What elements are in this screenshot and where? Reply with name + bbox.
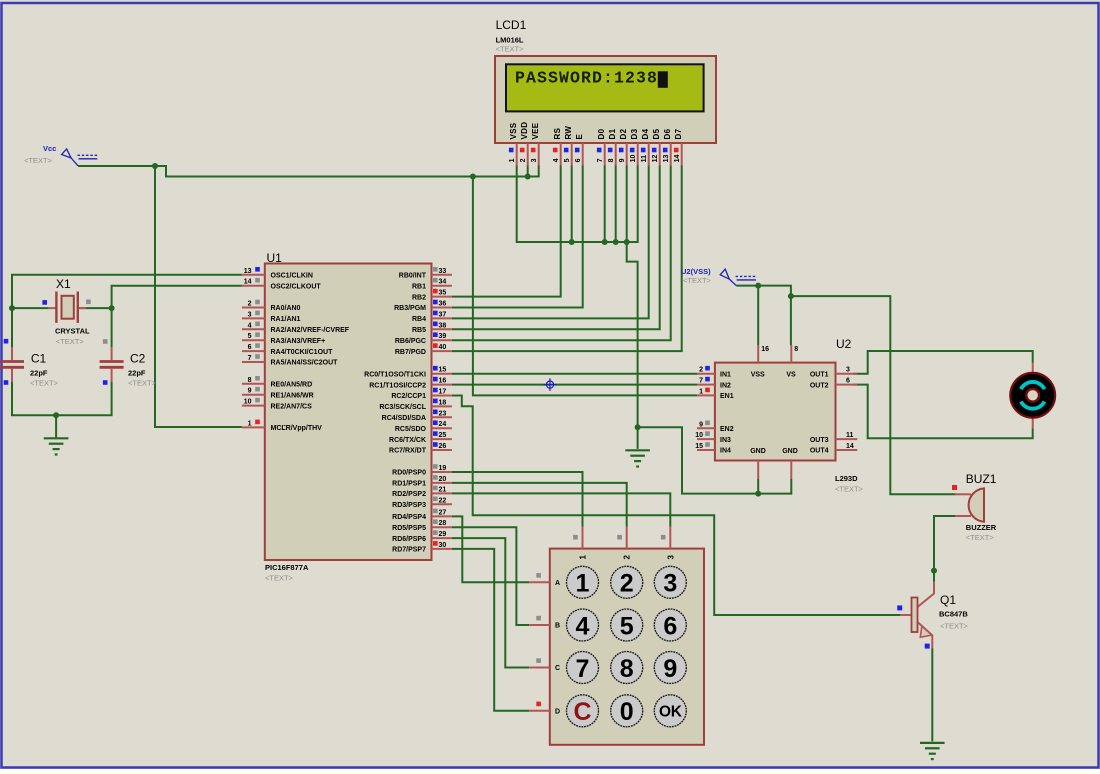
svg-text:D2: D2 (619, 128, 628, 139)
svg-text:RC2/CCP1: RC2/CCP1 (391, 393, 426, 400)
svg-text:23: 23 (439, 410, 447, 417)
svg-text:1: 1 (579, 555, 588, 560)
svg-text:4: 4 (576, 612, 590, 640)
svg-text:PASSWORD:1238: PASSWORD:1238 (515, 69, 658, 88)
svg-text:EN1: EN1 (720, 393, 734, 400)
svg-text:RA3/AN3/VREF+: RA3/AN3/VREF+ (271, 338, 326, 345)
svg-text:9: 9 (699, 421, 703, 428)
svg-text:33: 33 (439, 268, 447, 275)
svg-text:RA1/AN1: RA1/AN1 (271, 316, 301, 323)
svg-text:5: 5 (248, 333, 252, 340)
svg-text:4: 4 (248, 322, 252, 329)
svg-text:C: C (555, 665, 560, 672)
svg-text:X1: X1 (56, 277, 71, 291)
svg-text:17: 17 (439, 389, 447, 396)
svg-text:6: 6 (575, 158, 582, 162)
svg-text:3: 3 (663, 570, 677, 598)
svg-text:RA4/T0CKI/C1OUT: RA4/T0CKI/C1OUT (271, 349, 334, 356)
svg-text:RB6/PGC: RB6/PGC (395, 338, 426, 345)
svg-text:8: 8 (248, 377, 252, 384)
svg-text:8: 8 (608, 158, 615, 162)
svg-text:IN4: IN4 (720, 448, 731, 455)
svg-text:1: 1 (509, 158, 516, 162)
svg-text:22pF: 22pF (128, 369, 146, 378)
svg-text:Vcc: Vcc (43, 144, 56, 153)
svg-text:5: 5 (620, 612, 634, 640)
svg-text:RD6/PSP6: RD6/PSP6 (392, 536, 426, 543)
svg-text:20: 20 (439, 476, 447, 483)
svg-text:D4: D4 (641, 128, 650, 139)
svg-text:RD5/PSP5: RD5/PSP5 (392, 525, 426, 532)
svg-text:VS: VS (786, 371, 796, 378)
svg-text:39: 39 (439, 333, 447, 340)
svg-text:RD1/PSP1: RD1/PSP1 (392, 481, 426, 488)
svg-text:RC6/TX/CK: RC6/TX/CK (389, 437, 426, 444)
svg-text:U2(VSS): U2(VSS) (681, 267, 711, 276)
svg-text:A: A (555, 580, 560, 587)
svg-text:1: 1 (699, 388, 703, 395)
svg-text:1: 1 (248, 420, 252, 427)
svg-text:RC5/SDO: RC5/SDO (395, 426, 427, 433)
svg-text:3: 3 (666, 555, 675, 560)
svg-text:40: 40 (439, 344, 447, 351)
svg-text:12: 12 (652, 155, 659, 163)
svg-text:D6: D6 (663, 128, 672, 139)
svg-text:RD2/PSP2: RD2/PSP2 (392, 491, 426, 498)
svg-text:RD3/PSP3: RD3/PSP3 (392, 502, 426, 509)
svg-text:<TEXT>: <TEXT> (940, 622, 969, 631)
svg-text:OSC2/CLKOUT: OSC2/CLKOUT (271, 283, 322, 290)
svg-text:BC847B: BC847B (939, 610, 968, 619)
svg-text:3: 3 (846, 367, 850, 374)
svg-text:<TEXT>: <TEXT> (128, 379, 157, 388)
svg-text:MCLR/Vpp/THV: MCLR/Vpp/THV (271, 425, 323, 432)
svg-text:OK: OK (659, 703, 683, 720)
svg-text:36: 36 (439, 301, 447, 308)
svg-text:D7: D7 (674, 128, 683, 139)
svg-text:U2: U2 (836, 337, 852, 351)
svg-text:0: 0 (620, 698, 634, 726)
svg-text:RB0/INT: RB0/INT (399, 273, 427, 280)
svg-text:38: 38 (439, 322, 447, 329)
svg-text:14: 14 (244, 279, 252, 286)
svg-text:14: 14 (846, 443, 854, 450)
svg-text:VSS: VSS (751, 371, 765, 378)
svg-text:7: 7 (597, 158, 604, 162)
svg-text:3: 3 (531, 158, 538, 162)
svg-text:27: 27 (439, 509, 447, 516)
svg-text:28: 28 (439, 520, 447, 527)
svg-text:IN3: IN3 (720, 437, 731, 444)
svg-text:E: E (575, 134, 584, 140)
svg-text:10: 10 (244, 399, 252, 406)
svg-text:29: 29 (439, 531, 447, 538)
svg-text:11: 11 (846, 432, 854, 439)
svg-text:RC4/SDI/SDA: RC4/SDI/SDA (382, 415, 426, 422)
svg-text:<TEXT>: <TEXT> (265, 574, 294, 583)
svg-text:5: 5 (564, 158, 571, 162)
svg-text:CRYSTAL: CRYSTAL (55, 327, 90, 336)
svg-text:2: 2 (248, 301, 252, 308)
svg-text:C2: C2 (130, 352, 146, 366)
svg-text:2: 2 (520, 158, 527, 162)
svg-text:22pF: 22pF (30, 369, 48, 378)
svg-text:OUT1: OUT1 (810, 371, 829, 378)
svg-text:10: 10 (695, 432, 703, 439)
svg-text:OUT2: OUT2 (810, 382, 829, 389)
svg-text:<TEXT>: <TEXT> (496, 45, 525, 54)
svg-text:RC1/T1OSI/CCP2: RC1/T1OSI/CCP2 (369, 382, 426, 389)
svg-text:OSC1/CLKIN: OSC1/CLKIN (271, 273, 313, 280)
svg-text:LM016L: LM016L (496, 36, 524, 45)
svg-text:C1: C1 (31, 352, 47, 366)
svg-text:EN2: EN2 (720, 426, 734, 433)
svg-text:19: 19 (439, 465, 447, 472)
svg-text:BUZZER: BUZZER (966, 523, 997, 532)
svg-text:1: 1 (576, 570, 590, 598)
svg-text:8: 8 (794, 346, 798, 353)
svg-text:RA2/AN2/VREF-/CVREF: RA2/AN2/VREF-/CVREF (271, 327, 350, 334)
svg-text:U1: U1 (267, 251, 283, 265)
svg-text:15: 15 (439, 367, 447, 374)
svg-text:13: 13 (663, 155, 670, 163)
svg-text:OUT4: OUT4 (810, 448, 829, 455)
svg-text:<TEXT>: <TEXT> (683, 276, 712, 285)
svg-text:BUZ1: BUZ1 (966, 472, 997, 486)
svg-text:25: 25 (439, 432, 447, 439)
svg-text:RS: RS (553, 127, 562, 139)
svg-text:GND: GND (782, 448, 798, 455)
svg-text:RA0/AN0: RA0/AN0 (271, 305, 301, 312)
svg-text:C: C (573, 698, 591, 726)
svg-text:15: 15 (695, 443, 703, 450)
svg-text:RB4: RB4 (412, 316, 426, 323)
svg-text:6: 6 (663, 612, 677, 640)
svg-text:RB3/PGM: RB3/PGM (394, 305, 426, 312)
svg-text:B: B (555, 623, 560, 630)
svg-text:RE2/AN7/CS: RE2/AN7/CS (271, 403, 313, 410)
svg-text:Q1: Q1 (940, 593, 956, 607)
svg-text:30: 30 (439, 542, 447, 549)
svg-text:26: 26 (439, 443, 447, 450)
svg-text:<TEXT>: <TEXT> (966, 533, 995, 542)
svg-text:RW: RW (564, 126, 573, 140)
svg-text:RC3/SCK/SCL: RC3/SCK/SCL (379, 404, 426, 411)
svg-text:GND: GND (750, 448, 766, 455)
svg-text:9: 9 (663, 655, 677, 683)
svg-text:RB2: RB2 (412, 294, 426, 301)
svg-text:13: 13 (244, 268, 252, 275)
svg-text:34: 34 (439, 279, 447, 286)
svg-text:9: 9 (248, 388, 252, 395)
svg-text:2: 2 (623, 555, 632, 560)
svg-text:RC0/T1OSO/T1CKI: RC0/T1OSO/T1CKI (364, 371, 426, 378)
svg-text:RB5: RB5 (412, 327, 426, 334)
svg-text:2: 2 (620, 570, 634, 598)
svg-text:11: 11 (641, 155, 648, 163)
svg-text:RC7/RX/DT: RC7/RX/DT (389, 448, 427, 455)
svg-text:21: 21 (439, 486, 447, 493)
svg-text:RB7/PGD: RB7/PGD (395, 349, 426, 356)
svg-text:RE1/AN6/WR: RE1/AN6/WR (271, 392, 314, 399)
svg-text:RB1: RB1 (412, 283, 426, 290)
svg-text:14: 14 (674, 155, 681, 163)
svg-text:6: 6 (248, 344, 252, 351)
svg-text:<TEXT>: <TEXT> (56, 337, 85, 346)
svg-text:RD0/PSP0: RD0/PSP0 (392, 470, 426, 477)
svg-text:IN1: IN1 (720, 371, 731, 378)
svg-text:16: 16 (761, 346, 769, 353)
svg-text:LCD1: LCD1 (496, 18, 527, 32)
svg-text:16: 16 (439, 378, 447, 385)
svg-text:D5: D5 (652, 128, 661, 139)
svg-text:D0: D0 (597, 128, 606, 139)
svg-text:10: 10 (630, 155, 637, 163)
svg-text:RD4/PSP4: RD4/PSP4 (392, 514, 426, 521)
svg-text:7: 7 (248, 355, 252, 362)
svg-text:L293D: L293D (835, 474, 858, 483)
svg-text:<TEXT>: <TEXT> (835, 485, 864, 494)
svg-text:<TEXT>: <TEXT> (30, 379, 59, 388)
svg-text:VSS: VSS (509, 122, 518, 139)
svg-text:6: 6 (846, 378, 850, 385)
svg-text:OUT3: OUT3 (810, 437, 829, 444)
svg-text:7: 7 (576, 655, 590, 683)
svg-text:RD7/PSP7: RD7/PSP7 (392, 547, 426, 554)
svg-text:4: 4 (553, 158, 560, 162)
svg-text:<TEXT>: <TEXT> (24, 156, 53, 165)
svg-text:2: 2 (699, 367, 703, 374)
svg-text:RE0/AN5/RD: RE0/AN5/RD (271, 382, 313, 389)
svg-text:VEE: VEE (531, 122, 540, 139)
svg-text:37: 37 (439, 311, 447, 318)
svg-text:18: 18 (439, 399, 447, 406)
svg-text:8: 8 (620, 655, 634, 683)
svg-text:3: 3 (248, 311, 252, 318)
svg-text:7: 7 (699, 378, 703, 385)
svg-text:VDD: VDD (520, 122, 529, 140)
svg-text:D: D (555, 708, 560, 715)
svg-text:35: 35 (439, 290, 447, 297)
svg-text:9: 9 (619, 158, 626, 162)
svg-text:PIC16F877A: PIC16F877A (265, 563, 309, 572)
svg-text:D1: D1 (608, 128, 617, 139)
svg-text:22: 22 (439, 497, 447, 504)
svg-text:D3: D3 (630, 128, 639, 139)
svg-text:RA5/AN4/SS/C2OUT: RA5/AN4/SS/C2OUT (271, 360, 339, 367)
svg-text:IN2: IN2 (720, 382, 731, 389)
svg-text:24: 24 (439, 421, 447, 428)
